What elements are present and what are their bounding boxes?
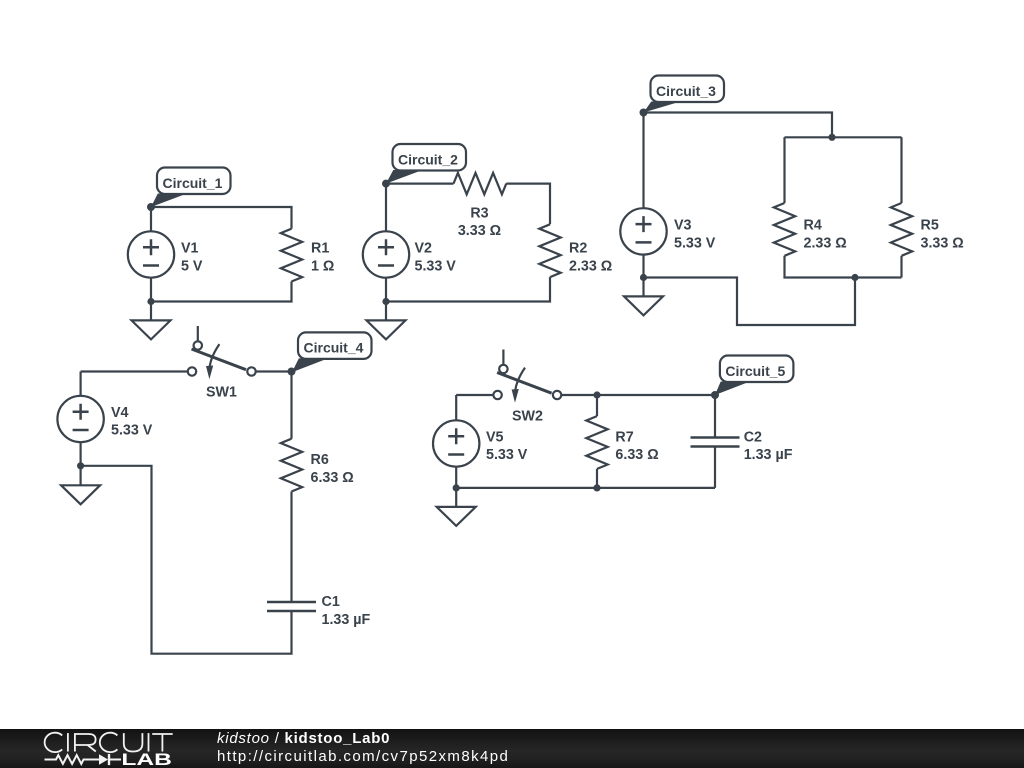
svg-text:V3: V3 [674, 218, 692, 234]
svg-text:5.33 V: 5.33 V [415, 259, 457, 275]
svg-text:R7: R7 [615, 430, 633, 446]
svg-text:R6: R6 [311, 452, 329, 468]
svg-text:V4: V4 [111, 405, 129, 421]
svg-text:SW2: SW2 [512, 409, 543, 425]
svg-text:Circuit_2: Circuit_2 [398, 151, 458, 167]
svg-text:R4: R4 [804, 218, 822, 234]
svg-text:C1: C1 [322, 594, 340, 610]
svg-text:R3: R3 [470, 206, 488, 222]
svg-text:Circuit_5: Circuit_5 [725, 363, 785, 379]
svg-text:R2: R2 [569, 241, 587, 257]
svg-text:3.33 Ω: 3.33 Ω [921, 236, 964, 252]
svg-text:1.33 µF: 1.33 µF [322, 612, 371, 628]
svg-text:6.33 Ω: 6.33 Ω [615, 447, 658, 463]
svg-text:V5: V5 [486, 430, 504, 446]
svg-text:5.33 V: 5.33 V [486, 447, 528, 463]
svg-text:Circuit_1: Circuit_1 [163, 175, 223, 191]
svg-text:2.33 Ω: 2.33 Ω [569, 259, 612, 275]
svg-text:3.33 Ω: 3.33 Ω [458, 223, 501, 239]
svg-text:1 Ω: 1 Ω [311, 259, 334, 275]
svg-text:V1: V1 [181, 241, 199, 257]
svg-text:SW1: SW1 [206, 385, 237, 401]
svg-text:5.33 V: 5.33 V [111, 423, 153, 439]
svg-text:Circuit_4: Circuit_4 [304, 340, 364, 356]
svg-text:Circuit_3: Circuit_3 [656, 83, 716, 99]
svg-text:C2: C2 [744, 430, 762, 446]
svg-text:R5: R5 [921, 218, 939, 234]
svg-text:V2: V2 [415, 241, 433, 257]
svg-text:1.33 µF: 1.33 µF [744, 447, 793, 463]
svg-text:5.33 V: 5.33 V [674, 236, 716, 252]
svg-text:2.33 Ω: 2.33 Ω [804, 236, 847, 252]
svg-text:R1: R1 [311, 241, 329, 257]
svg-text:5 V: 5 V [181, 259, 203, 275]
svg-text:6.33 Ω: 6.33 Ω [311, 470, 354, 486]
